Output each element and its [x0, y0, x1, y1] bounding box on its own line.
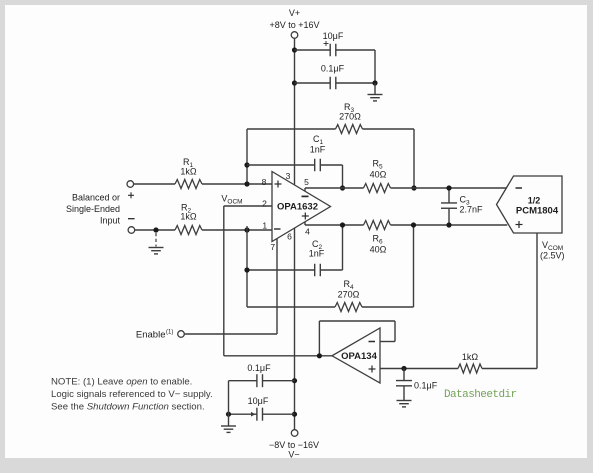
- polarity mark of 10uF: [251, 412, 256, 417]
- capacitor 0.1uF (VCOM filter): [403, 369, 405, 381]
- capacitor 10uF (top bypass): [329, 44, 331, 57]
- junction V+ / 0.1uF row: [292, 80, 297, 85]
- wire 0.1uF row: [295, 82, 331, 84]
- wire R4 right vertical: [413, 225, 415, 307]
- svg-text:NOTE: (1) Leave open to enable: NOTE: (1) Leave open to enable.: [51, 377, 192, 388]
- wire OUT+ (pin 4) row: [304, 222, 306, 225]
- svg-text:V−: V−: [288, 450, 299, 460]
- svg-text:(1): (1): [166, 330, 173, 336]
- svg-text:0.1μF: 0.1μF: [247, 363, 271, 373]
- junction V- / 10uF row: [292, 412, 297, 417]
- resistor R1 1kohm: [175, 180, 202, 189]
- output - marker: [302, 195, 309, 197]
- wire V+ vertical to OPA1632 pin 3: [294, 38, 296, 184]
- junction feedback / pin 1: [244, 227, 249, 232]
- svg-text:1/2: 1/2: [528, 196, 541, 206]
- junction C2 row left: [244, 267, 249, 272]
- junction R4 / OUT+ row: [411, 222, 416, 227]
- svg-text:V+: V+: [289, 8, 300, 18]
- svg-text:5: 5: [304, 177, 309, 187]
- svg-text:Enable: Enable: [136, 330, 166, 341]
- junction C3 bottom: [446, 222, 451, 227]
- junction - input ground tap: [153, 227, 158, 232]
- output + marker: [302, 215, 309, 217]
- svg-text:Logic signals referenced to V−: Logic signals referenced to V− supply.: [51, 389, 213, 400]
- svg-text:OPA1632: OPA1632: [277, 202, 318, 213]
- svg-text:40Ω: 40Ω: [370, 170, 387, 180]
- svg-text:0.1μF: 0.1μF: [414, 381, 438, 391]
- wire Enable to pin 7: [184, 333, 277, 335]
- junction C1 / OUT- row: [340, 185, 345, 190]
- svg-text:270Ω: 270Ω: [338, 290, 360, 300]
- ADC U2 1/2 PCM1804: [497, 176, 563, 233]
- wire VOCM to pin 2: [224, 205, 272, 207]
- wire C1 to output node: [342, 165, 344, 188]
- junction 10uF left / ground: [226, 412, 231, 417]
- svg-text:10μF: 10μF: [248, 396, 269, 406]
- svg-text:PCM1804: PCM1804: [516, 206, 559, 217]
- input terminal +: [127, 181, 134, 188]
- capacitor 0.1uF (top bypass): [329, 77, 331, 90]
- svg-text:40Ω: 40Ω: [370, 245, 387, 255]
- ground (input): [149, 247, 164, 249]
- svg-text:6: 6: [287, 232, 292, 242]
- polarity + of 10uF: [324, 43, 329, 45]
- PCM + input marker: [516, 224, 523, 226]
- svg-text:1kΩ: 1kΩ: [180, 212, 197, 222]
- svg-text:270Ω: 270Ω: [339, 112, 361, 122]
- svg-text:0.1μF: 0.1μF: [321, 64, 345, 74]
- svg-text:7: 7: [270, 242, 275, 252]
- wire C2 to output node: [342, 225, 344, 270]
- svg-text:10μF: 10μF: [323, 31, 344, 41]
- wire + input row: [134, 183, 175, 185]
- svg-text:3: 3: [286, 171, 291, 181]
- junction R3 / OUT- row: [411, 185, 416, 190]
- wire 10uF row: [295, 49, 331, 51]
- wire OPA134 output row to VOCM: [224, 355, 332, 357]
- wire right bypass vertical: [374, 50, 376, 83]
- capacitor C3 2.7nF across outputs: [448, 188, 450, 203]
- wire upper feedback left vertical: [246, 129, 248, 185]
- capacitor C1 1nF row: [247, 164, 315, 166]
- svg-text:OPA134: OPA134: [341, 351, 377, 362]
- resistor R5 40ohm: [364, 184, 391, 193]
- ground (top bypass): [368, 94, 383, 96]
- resistor R2 1kohm: [175, 226, 202, 235]
- pin 1 - marker: [274, 228, 281, 230]
- wire to top ground: [374, 83, 376, 95]
- junction C1 row left: [244, 162, 249, 167]
- svg-text:See the Shutdown Function sect: See the Shutdown Function section.: [51, 402, 205, 413]
- junction feedback / pin 8: [244, 181, 249, 186]
- capacitor C2 1nF row: [247, 269, 315, 271]
- svg-text:8: 8: [262, 177, 267, 187]
- wire bottom bypass left vertical: [228, 381, 230, 426]
- polarity - of input: [128, 218, 135, 220]
- wire OUT- (pin 5) row: [304, 188, 306, 191]
- wire V- vertical from OPA1632 pin 6: [294, 228, 296, 430]
- op-amp U3 OPA134 (VCOM buffer): [332, 328, 380, 383]
- svg-text:Datasheetdir: Datasheetdir: [444, 389, 517, 401]
- wire VOCM vertical: [223, 206, 225, 356]
- OPA134 + input marker: [369, 368, 376, 370]
- junction 0.1uF tap: [401, 366, 406, 371]
- polarity + of input: [128, 194, 134, 196]
- resistor R4 270ohm feedback row: [247, 306, 335, 308]
- svg-text:−8V to −16V: −8V to −16V: [269, 440, 319, 450]
- input terminal -: [128, 227, 135, 234]
- junction OPA134 output / feedback: [317, 353, 322, 358]
- Enable terminal: [178, 331, 185, 338]
- wire 1kohm to OPA134 + input: [380, 368, 458, 370]
- V- terminal: [291, 430, 298, 437]
- svg-text:1nF: 1nF: [309, 249, 325, 259]
- junction C3 top: [446, 185, 451, 190]
- junction V- / 0.1uF row: [292, 378, 297, 383]
- svg-text:Single-Ended: Single-Ended: [66, 204, 120, 214]
- wire dashed to input ground: [155, 233, 157, 247]
- V+ terminal: [291, 32, 298, 39]
- resistor R3 270ohm feedback row: [247, 128, 336, 130]
- svg-text:2.7nF: 2.7nF: [460, 205, 484, 215]
- junction V+ / 10uF row: [292, 47, 297, 52]
- wire OPA134 feedback loop: [380, 341, 395, 343]
- svg-text:1nF: 1nF: [310, 145, 326, 155]
- capacitor 0.1uF (bottom bypass): [229, 380, 257, 382]
- svg-text:+8V to +16V: +8V to +16V: [269, 20, 319, 30]
- svg-text:1kΩ: 1kΩ: [462, 352, 479, 362]
- ground (bottom bypass): [221, 425, 236, 427]
- junction bypass to ground: [372, 80, 377, 85]
- wire R3 right vertical: [413, 129, 415, 188]
- svg-text:Input: Input: [100, 216, 121, 226]
- PCM - input marker: [516, 187, 523, 189]
- svg-text:4: 4: [305, 227, 310, 237]
- op-amp U1 OPA1632: [272, 172, 331, 242]
- wire - input row: [135, 229, 175, 231]
- wire VCOM from PCM1804: [536, 233, 538, 369]
- svg-text:1: 1: [262, 221, 267, 231]
- svg-text:1kΩ: 1kΩ: [180, 167, 197, 177]
- svg-text:(2.5V): (2.5V): [540, 251, 565, 261]
- pin 8 + marker: [275, 183, 282, 185]
- junction C2 / OUT+ row: [340, 222, 345, 227]
- resistor 1kohm (VCOM): [458, 364, 482, 373]
- svg-text:2: 2: [262, 198, 267, 208]
- OPA134 - input marker: [369, 341, 376, 343]
- capacitor 10uF (bottom bypass): [229, 413, 257, 415]
- wire lower feedback left vertical: [246, 226, 248, 307]
- resistor R6 40ohm: [364, 221, 391, 230]
- ground (VCOM filter): [397, 400, 412, 402]
- svg-text:Balanced or: Balanced or: [72, 193, 120, 203]
